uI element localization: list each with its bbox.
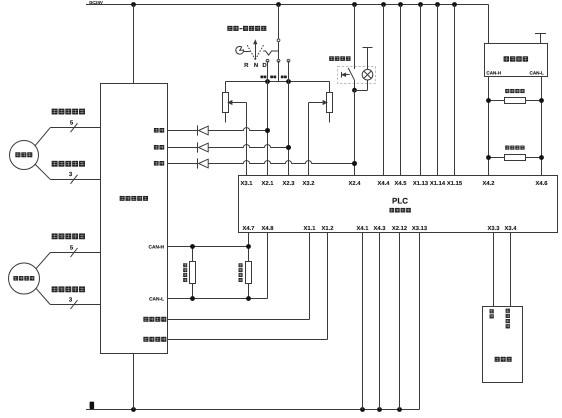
svg-text:X4.2: X4.2 [483, 180, 495, 187]
diode 前进 forward triangle [199, 143, 209, 152]
wire switch to junction [354, 80, 356, 90]
RP2 wiper arrow [323, 101, 327, 105]
label 牵引电机 [13, 276, 34, 281]
svg-text:X2.3: X2.3 [283, 180, 296, 187]
handle knob [236, 46, 244, 54]
contact common [277, 39, 280, 42]
wire motor temp diagonal [36, 288, 50, 304]
wire to pot RP1 top [225, 82, 227, 93]
handle lever arrowhead [254, 41, 257, 44]
potentiometer RP1 [223, 93, 229, 113]
svg-text:X1.14: X1.14 [430, 181, 446, 187]
svg-text:X3.1: X3.1 [241, 180, 254, 187]
svg-text:X4.4: X4.4 [378, 181, 391, 187]
label 主显示器 [504, 56, 529, 61]
wire bus to reset switch [354, 5, 356, 70]
wire bus to inverter top [133, 5, 135, 84]
junction switch/lamp [352, 88, 357, 93]
RP1 wiper arrow [228, 101, 232, 105]
contact R position [266, 59, 269, 62]
svg-text:X3.2: X3.2 [303, 180, 315, 187]
junction 前进 forward row end [286, 145, 291, 150]
wire 牵引转矩 to X1.1 [168, 319, 310, 321]
label 旋转变压器 motor [52, 233, 85, 239]
label 前进 [154, 145, 164, 150]
junction CAN-H / R-term4 [486, 155, 491, 160]
junction D contact / pot rail [286, 79, 291, 84]
terminating resistor R-term2 终端电阻 [246, 262, 252, 284]
terminating resistor R-term1 终端电阻 [190, 262, 196, 284]
slash 3-wire mark [71, 175, 78, 184]
lamp HL1 [362, 69, 373, 80]
svg-text:CAN-H: CAN-H [149, 244, 165, 250]
junction CAN-H / R-term1 [190, 244, 195, 249]
svg-text:X3.13: X3.13 [412, 225, 428, 232]
resistor R-term2 bottom lead [248, 283, 250, 298]
junction top bus / inverter feed [131, 2, 136, 7]
resistor R-term1 top lead [192, 247, 194, 262]
wire 倒车 reverse to diode [168, 130, 198, 132]
label 空挡 tiny [270, 76, 276, 79]
wire 0V bottom bus [86, 409, 420, 411]
junction top bus / X1.14 [435, 2, 440, 7]
label 旋转变压器 generator [52, 109, 85, 115]
slash 5-wire mark [71, 123, 78, 132]
resistor R-term1 bottom lead [192, 283, 194, 298]
junction top bus / X4.5 [398, 2, 403, 7]
resistor R-term2 top lead [248, 247, 250, 262]
reset switch dashed enclosure [338, 67, 376, 84]
label 终端电阻 display 1 [505, 89, 524, 93]
wire motor resolver [50, 252, 100, 254]
svg-text:PLC: PLC [392, 196, 408, 205]
junction top bus / reset feed [352, 2, 357, 7]
svg-text:X4.7: X4.7 [243, 226, 255, 232]
pot RP2 bottom stub [329, 113, 331, 123]
svg-text:X2.12: X2.12 [392, 225, 407, 232]
slash 5-wire mark motor [71, 248, 78, 257]
wire bus corner down to display [488, 5, 490, 44]
svg-text:X4.6: X4.6 [536, 180, 549, 187]
svg-text:X4.3: X4.3 [374, 225, 387, 232]
wire motor temp sensor [50, 304, 100, 306]
svg-text:X1.13: X1.13 [413, 180, 429, 187]
label 温度传感器 motor [52, 286, 85, 292]
junction bottom bus / inverter return [131, 407, 136, 412]
label 调速-换向手柄 [227, 26, 266, 31]
lamp top lead [367, 48, 369, 70]
slash 3-wire mark motor [71, 300, 78, 309]
wire X1.2 drop [327, 233, 329, 340]
label 倒车 tiny [260, 76, 266, 79]
wire RP2 wiper to X3.2 pin [308, 103, 310, 176]
svg-text:X1.15: X1.15 [447, 181, 463, 187]
wire 前进 forward row with hops [208, 145, 288, 148]
wire 倒车 reverse row with hops [208, 128, 267, 131]
svg-text:X4.8: X4.8 [262, 225, 275, 232]
diode 倒车 reverse cathode bar [197, 125, 199, 135]
wire 前进 forward to diode [168, 147, 198, 149]
label 主控制器 [389, 208, 410, 213]
junction 前进 / X2.3 [286, 145, 291, 150]
label 终端电阻 vertical 1 [183, 263, 187, 282]
label 牵引转矩 [143, 317, 166, 322]
junction R contact / pot rail [265, 79, 270, 84]
wire X4.1 to 0V bus [362, 233, 364, 410]
switch actuator bar [341, 72, 343, 78]
junction 倒车 / X2.1 [265, 128, 270, 133]
wire CAN-H inverter to X4.7 [168, 246, 249, 248]
label 复位 [154, 161, 164, 166]
junction top bus / X1.15 [452, 2, 457, 7]
junction CAN-L / R-term4 [539, 155, 544, 160]
label 制动转矩 [143, 337, 166, 342]
label 复位开关 [329, 56, 350, 61]
wire R-term4 row [489, 157, 542, 159]
wire generator resolver diagonal [35, 128, 50, 146]
wire X4.3 to 0V bus [379, 233, 381, 410]
wire 制动转矩 to X1.2 [168, 339, 328, 341]
label 终端电阻 vertical 2 [239, 263, 243, 282]
generator 发电机 [10, 141, 39, 170]
wire CAN-L inverter [168, 298, 268, 300]
terminating resistor R-term3 终端电阻 [505, 98, 526, 104]
wire R-term3 row [489, 100, 542, 102]
wire RP2 wiper to X3.2 [309, 102, 327, 104]
terminating resistor R-term4 终端电阻 [505, 155, 526, 161]
handle detent link [263, 51, 278, 55]
potentiometer RP2 [327, 93, 333, 113]
wire R contact to X2.1 [267, 61, 269, 176]
wire generator resolver [50, 127, 100, 129]
diode 复位 reset triangle [199, 159, 209, 168]
wire to pot RP2 top [329, 82, 331, 93]
wire bus to X4.4 [383, 5, 385, 176]
diode 倒车 reverse triangle [199, 126, 209, 135]
junction bottom bus / X4.1 [360, 407, 365, 412]
display T terminal [535, 33, 546, 35]
label ground 0V [90, 402, 95, 409]
PLC main controller box [239, 176, 558, 233]
wire RP1 wiper to X3.1 [228, 102, 246, 104]
svg-text:N: N [254, 62, 258, 69]
junction top bus / X4.4 [381, 2, 386, 7]
wire lamp to junction [355, 90, 368, 92]
contact N position [277, 59, 280, 62]
pot RP1 bottom stub [225, 113, 227, 123]
label 前进 tiny [281, 76, 287, 79]
label 终端电阻 display 2 [505, 146, 524, 150]
contact D position [287, 59, 290, 62]
handle knob link [244, 51, 250, 53]
svg-text:D: D [262, 62, 267, 69]
traction inverter 牵引逆变器 box [101, 84, 168, 354]
main display 主显示器 box [485, 44, 548, 77]
wire 复位 reset row with hops [208, 161, 354, 164]
handle lever N [255, 43, 257, 59]
svg-text:R: R [244, 62, 249, 69]
junction top bus / X1.13 [418, 2, 423, 7]
wire +24V top bus [86, 4, 489, 6]
lamp bottom lead [367, 80, 369, 90]
wire X4.8 drop [267, 233, 269, 299]
svg-text:CAN-L: CAN-L [530, 71, 544, 76]
wire display CAN-L to X4.6 [541, 77, 543, 176]
wire bus to X1.13 [420, 5, 422, 176]
junction 复位 reset row end [352, 161, 357, 166]
junction CAN-H / R-term3 [486, 98, 491, 103]
junction CAN-L / R-term1 [190, 296, 195, 301]
junction bottom bus / X2.12 [397, 407, 402, 412]
wire pot supply rail [226, 81, 330, 83]
wire motor resolver diagonal [36, 253, 50, 269]
svg-text:X1.1: X1.1 [304, 226, 317, 232]
diode 复位 reset cathode bar [197, 158, 199, 168]
wire X1.1 drop [309, 233, 311, 320]
wire generator temp sensor [50, 179, 100, 181]
label 牵引逆变器 [120, 196, 148, 201]
engine 发动机 box [483, 307, 523, 383]
label 发电机 [15, 152, 32, 157]
wire bus to X4.5 [400, 5, 402, 176]
label 倒车 [154, 128, 164, 133]
traction motor 牵引电机 [9, 263, 40, 294]
junction CAN-L / R-term2 [246, 296, 251, 301]
diode 前进 forward cathode bar [197, 142, 199, 152]
label 启动信号 vertical [506, 309, 510, 329]
svg-text:X3.4: X3.4 [505, 225, 518, 232]
svg-text:X1.2: X1.2 [322, 225, 334, 232]
handle lever D dashed [255, 45, 263, 60]
svg-text:DC24V: DC24V [89, 0, 103, 5]
wire generator temp diagonal [35, 164, 50, 179]
junction CAN-H / R-term2 [246, 244, 251, 249]
junction bottom bus / X4.3 [377, 407, 382, 412]
junction 复位 / X2.4 [352, 161, 357, 166]
wire X2.12 to 0V bus [399, 233, 401, 410]
wire D contact to X2.3 [288, 61, 290, 176]
wire X3.4 to engine [510, 233, 512, 307]
junction 倒车 reverse row end [265, 128, 270, 133]
switch actuator arrow [342, 73, 346, 76]
switch actuator link [345, 74, 349, 76]
switch SB1 blade [348, 68, 354, 80]
svg-text:X4.5: X4.5 [395, 181, 408, 187]
label 转速 vertical [490, 309, 494, 318]
svg-text:CAN-H: CAN-H [486, 71, 501, 76]
display T lead [540, 34, 542, 44]
wire X3.3 to engine [493, 233, 495, 307]
handle lever R dashed [247, 45, 255, 60]
svg-text:X4.1: X4.1 [357, 226, 370, 232]
wire bus to X1.15 [454, 5, 456, 176]
label 发动机 [495, 357, 512, 362]
wire X4.7 drop [248, 233, 250, 247]
junction CAN-L / R-term3 [539, 98, 544, 103]
wire display CAN-H to X4.2 [488, 77, 490, 176]
lamp T terminal [363, 47, 373, 49]
svg-text:X3.3: X3.3 [488, 225, 501, 232]
label 温度传感器 generator [52, 161, 85, 167]
wire bus to X1.14 [437, 5, 439, 176]
wire N contact stub [278, 61, 280, 82]
wire inverter bottom to 0V bus [133, 354, 135, 410]
wire reset junction to X2.4 [354, 90, 356, 175]
svg-text:X2.1: X2.1 [262, 180, 275, 187]
wire RP1 wiper to X3.1 pin [246, 103, 248, 176]
svg-text:X2.4: X2.4 [349, 180, 362, 187]
junction top bus / handle feed [276, 2, 281, 7]
wire X3.13 to 0V bus [419, 233, 421, 410]
svg-text:CAN-L: CAN-L [149, 296, 164, 302]
wire 复位 reset to diode [168, 163, 198, 165]
wire handle common [278, 5, 280, 82]
